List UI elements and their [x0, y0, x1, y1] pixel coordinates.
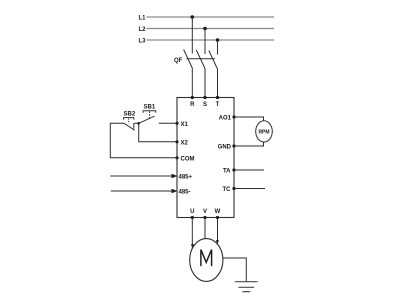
svg-text:L1: L1 — [138, 15, 146, 21]
pushbutton SB2 contact — [124, 123, 135, 130]
ground bar 2 — [238, 286, 254, 288]
junction dot W at motor — [216, 240, 219, 243]
motor M1 letter M — [201, 250, 212, 267]
breaker QF pole2 contact — [196, 50, 205, 69]
wire V to motor — [204, 218, 206, 239]
pin S dot — [203, 96, 206, 99]
ground bar 3 — [242, 291, 250, 293]
svg-text:V: V — [203, 209, 207, 215]
pin X1 dot — [175, 122, 178, 125]
svg-text:W: W — [215, 209, 221, 215]
wire AO1 to meter — [234, 117, 264, 121]
pushbutton SB2 actuator cap — [124, 118, 134, 120]
pin TC dot — [232, 187, 235, 190]
breaker QF pole1 contact — [184, 50, 193, 69]
wire motor to ground — [223, 258, 246, 282]
breaker QF pole3 contact — [209, 51, 218, 70]
pin COM dot — [175, 156, 178, 159]
node A junction — [137, 122, 140, 125]
pin 485+ arrowhead — [172, 174, 178, 178]
wire TC stub — [234, 188, 265, 190]
pin AO1 dot — [232, 115, 235, 118]
svg-text:T: T — [216, 102, 220, 108]
svg-text:GND: GND — [218, 145, 232, 151]
svg-text:TC: TC — [223, 187, 232, 193]
wire U to motor — [191, 218, 193, 249]
wire node A to X2 — [139, 123, 177, 142]
svg-text:RPM: RPM — [258, 129, 269, 135]
svg-text:U: U — [190, 209, 194, 215]
svg-text:R: R — [190, 102, 195, 108]
pin U dot — [191, 216, 194, 219]
svg-text:SB2: SB2 — [124, 111, 136, 117]
wire 485+ — [110, 175, 172, 177]
wire GND to meter — [234, 142, 264, 146]
pushbutton SB2 actuator stem — [128, 119, 130, 124]
pin X2 dot — [175, 140, 178, 143]
pin R dot — [191, 96, 194, 99]
svg-text:S: S — [203, 102, 207, 108]
svg-text:X2: X2 — [181, 141, 189, 147]
breaker QF pole2 lower wire — [204, 69, 206, 98]
svg-text:L3: L3 — [138, 38, 146, 44]
pin W dot — [216, 216, 219, 219]
wire L2 — [147, 28, 275, 30]
junction dot on L1 — [191, 15, 195, 19]
pushbutton SB2 fixed stub — [133, 123, 135, 128]
wire SB1 to X1 — [159, 122, 177, 124]
svg-text:QF: QF — [174, 58, 183, 64]
junction dot on L3 — [216, 38, 220, 42]
svg-text:485-: 485- — [179, 190, 191, 196]
pin V dot — [203, 216, 206, 219]
ground bar 1 — [235, 281, 258, 283]
motor M1 body — [190, 239, 223, 282]
pushbutton SB1 contact — [139, 116, 155, 123]
wire 485- — [111, 190, 172, 192]
breaker QF pole1 lower wire — [191, 68, 193, 98]
junction dot on L2 — [203, 27, 207, 31]
pin 485- arrowhead — [172, 189, 178, 193]
svg-text:485+: 485+ — [179, 175, 193, 181]
breaker QF linkage bar — [187, 58, 215, 60]
breaker QF pole2 upper wire — [204, 29, 206, 55]
svg-text:L2: L2 — [138, 27, 146, 33]
breaker QF pole3 upper wire — [217, 40, 219, 55]
pin T dot — [216, 96, 219, 99]
breaker QF pole1 upper wire — [191, 17, 193, 54]
pushbutton SB1 actuator stem — [149, 112, 151, 120]
svg-text:SB1: SB1 — [144, 105, 156, 111]
wire L3 — [147, 39, 275, 41]
pin TA dot — [232, 168, 235, 171]
pin GND dot — [232, 144, 235, 147]
meter RPM body — [256, 121, 273, 142]
svg-text:COM: COM — [181, 157, 195, 163]
inverter U1 body — [177, 98, 234, 218]
junction dot U at motor — [191, 244, 194, 247]
wire L1 — [147, 16, 275, 18]
wire TA stub — [234, 169, 264, 171]
svg-text:AO1: AO1 — [219, 116, 232, 122]
wire SB2 to node A — [134, 122, 139, 124]
svg-text:X1: X1 — [181, 122, 189, 128]
svg-text:TA: TA — [223, 169, 231, 175]
pushbutton SB1 actuator cap — [143, 111, 156, 113]
wire COM loop (COM to SB2 left) — [110, 123, 177, 158]
wire W to motor — [217, 218, 219, 245]
breaker QF pole3 lower wire — [217, 69, 219, 98]
